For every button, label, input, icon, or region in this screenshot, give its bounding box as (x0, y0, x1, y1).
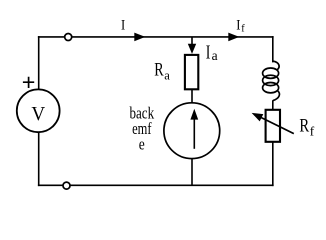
variable resistor Rf arrowhead (252, 113, 264, 122)
svg-text:e: e (139, 134, 145, 153)
svg-text:a: a (212, 49, 219, 64)
current arrow I on top wire (134, 33, 145, 42)
inductor loop 3 (263, 83, 279, 93)
wire stub top of Ra branch (191, 37, 193, 47)
inductor loop 1 (263, 68, 279, 78)
voltage source V circle (17, 89, 60, 132)
wire below back-emf source (191, 158, 193, 185)
svg-text:I: I (206, 41, 211, 63)
variable resistor Rf body (266, 110, 280, 142)
back emf source U1 circle (164, 103, 220, 159)
wire between Ra and source circle (191, 89, 193, 103)
current arrow If on top wire (228, 33, 239, 42)
wire top horizontal (39, 36, 273, 38)
voltage source polarity plus sign (23, 77, 34, 88)
svg-text:R: R (299, 115, 309, 136)
wire right vertical upper (272, 37, 274, 62)
inductor loop 2 (263, 75, 279, 85)
wire right vertical lower (272, 142, 274, 185)
terminal node circle bottom (63, 182, 70, 189)
svg-text:a: a (164, 68, 170, 83)
svg-text:V: V (31, 103, 45, 125)
inductor L bottom hook (273, 91, 279, 101)
svg-text:R: R (154, 59, 164, 80)
wire left vertical lower (38, 132, 40, 186)
svg-text:I: I (236, 18, 240, 34)
current arrow Ia (down into Ra) (188, 44, 196, 54)
inductor L (field winding) top hook (273, 61, 279, 70)
svg-text:f: f (241, 23, 245, 35)
wire between inductor and Rf (272, 100, 274, 110)
svg-text:I: I (121, 18, 125, 34)
resistor Ra body (185, 55, 198, 89)
wire bottom horizontal (39, 184, 273, 186)
terminal node circle top (65, 34, 72, 41)
svg-text:f: f (310, 124, 315, 139)
back emf source arrow (up) (193, 119, 195, 149)
wire left vertical upper (38, 37, 40, 91)
variable resistor Rf diagonal arrow line (260, 117, 294, 134)
